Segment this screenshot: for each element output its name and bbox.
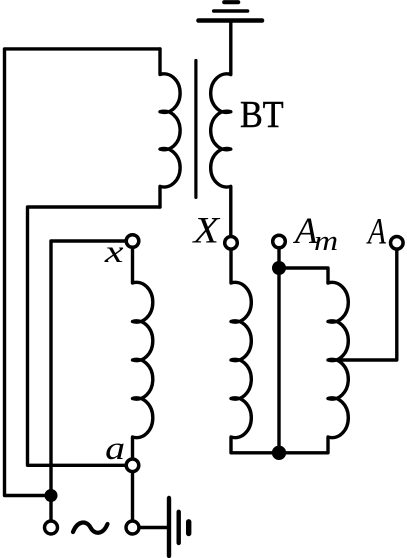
transformer U1 primary winding (left, 3 arcs) <box>160 49 180 207</box>
ground (earth symbol, top) <box>199 2 263 20</box>
wire: winding A tap to terminal A <box>330 249 397 360</box>
transformer U1 secondary winding (right, 3 arcs) <box>211 74 231 237</box>
svg-text:a: a <box>105 430 125 466</box>
terminal Am (circle) <box>273 235 286 248</box>
svg-text:x: x <box>104 235 124 270</box>
terminal X (circle) <box>225 237 238 250</box>
winding X (middle autotransformer winding, 4 arcs) <box>231 249 272 452</box>
terminal a (circle) <box>126 459 139 472</box>
svg-text:X: X <box>191 211 221 251</box>
node junction (bottom common, dot) <box>272 446 286 460</box>
ground (earth symbol, bottom right, rotated) <box>169 498 189 556</box>
wire: terminal x to left, down to junction <box>51 241 127 521</box>
wire: ground stem to transformer secondary top <box>229 23 232 75</box>
AC source symbol (~) <box>73 523 108 533</box>
node junction (AC source / x-wire) <box>45 489 58 502</box>
svg-text:A: A <box>366 212 386 253</box>
wire: Am tap to winding A top <box>279 268 328 283</box>
wire: primary top to left rail, down, to junction at AC source <box>5 49 161 496</box>
terminal A (circle) <box>391 237 404 250</box>
winding A (right autotransformer winding, 4 arcs) <box>286 282 348 452</box>
wire: primary bottom left, down mid-left rail, to terminal a <box>28 207 161 465</box>
terminal (AC source left, circle) <box>45 521 58 534</box>
terminal x (circle) <box>126 235 139 248</box>
node junction (Am tap, upper dot) <box>272 261 286 275</box>
svg-text:BT: BT <box>240 93 284 135</box>
svg-text:m: m <box>314 224 338 256</box>
winding x-a (left autotransformer winding, 4 arcs) <box>133 248 153 459</box>
terminal (AC source right, circle) <box>126 521 139 534</box>
wire: terminal Am down to bottom junction <box>277 248 280 453</box>
wire: terminal a down to AC source right terminal <box>131 472 134 521</box>
wire: AC right terminal to ground <box>139 526 167 529</box>
transformer U1 core <box>194 61 197 198</box>
